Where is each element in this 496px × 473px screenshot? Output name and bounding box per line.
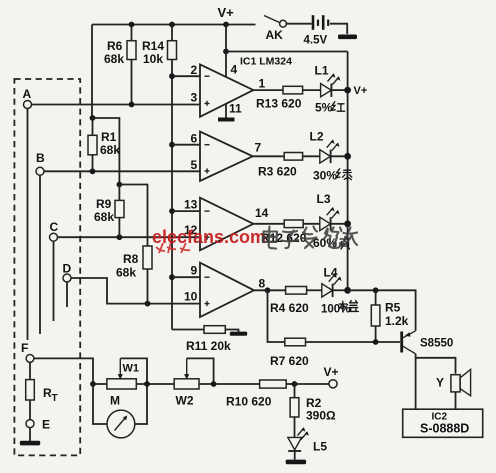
junction R5 top	[373, 287, 379, 293]
thermistor RT	[26, 362, 35, 420]
label 4.5V	[304, 35, 328, 47]
svg-text:R14: R14	[142, 39, 164, 53]
svg-text:C: C	[50, 220, 59, 234]
terminal V+ bottom	[324, 365, 339, 388]
wire pin13	[172, 210, 200, 212]
label pin 9	[191, 264, 198, 278]
svg-text:14: 14	[255, 206, 269, 220]
junction bus pin13	[169, 208, 175, 214]
resistor R5 1.2k	[371, 290, 380, 342]
svg-text:10k: 10k	[143, 52, 163, 66]
junction bus pin6	[169, 142, 175, 148]
junction R5 bottom base line	[373, 339, 379, 345]
svg-text:5%: 5%	[315, 101, 333, 115]
label R7 620	[270, 354, 309, 368]
svg-text:V+: V+	[354, 85, 368, 97]
label pin 7	[255, 141, 262, 155]
resistor R6	[127, 25, 136, 105]
wire R9 top to R8 top	[119, 185, 147, 247]
label 100% orange	[321, 301, 358, 316]
terminal C	[50, 220, 59, 241]
svg-text:5: 5	[191, 158, 198, 172]
watermark red strokes	[156, 242, 190, 253]
meter M	[93, 384, 147, 438]
junction V+ top	[223, 22, 229, 28]
wire L4 line to R5 and emitter	[348, 290, 416, 331]
svg-text:30%: 30%	[313, 169, 337, 183]
svg-text:T: T	[52, 393, 58, 404]
LED L4	[322, 274, 348, 298]
wire pin6	[172, 144, 200, 146]
svg-text:R4 620: R4 620	[270, 301, 309, 315]
label pin 3	[191, 91, 198, 105]
resistor R14	[168, 25, 177, 60]
label pin 2	[191, 63, 198, 77]
label R13 620	[256, 97, 302, 111]
wire battery to ground	[330, 24, 347, 34]
svg-text:R10 620: R10 620	[226, 395, 272, 409]
wire probe C	[53, 241, 55, 321]
svg-text:9: 9	[191, 264, 198, 278]
svg-text:1.2k: 1.2k	[385, 314, 409, 328]
resistor R1 68k	[88, 115, 97, 171]
svg-text:10: 10	[184, 290, 198, 304]
LED L1	[321, 73, 348, 97]
svg-text:4: 4	[231, 63, 238, 77]
label W1	[123, 363, 140, 375]
junction W1 left	[90, 381, 96, 387]
svg-text:R1: R1	[101, 130, 117, 144]
resistor R7 620	[285, 338, 400, 346]
wire probe A	[27, 108, 29, 340]
svg-text:11: 11	[229, 102, 242, 116]
LED L2	[320, 140, 348, 164]
label L2	[310, 130, 324, 144]
svg-text:elecfans.com: elecfans.com	[152, 227, 266, 247]
svg-text:E: E	[42, 418, 50, 432]
watermark CJK dianzifashaoyou gray	[263, 227, 357, 249]
svg-text:100%: 100%	[321, 304, 350, 316]
wire U1 output	[253, 89, 283, 91]
svg-text:R13 620: R13 620	[256, 97, 302, 111]
junction L1 bus V+	[344, 87, 351, 94]
junction L3 bus	[344, 220, 351, 227]
svg-text:68k: 68k	[100, 143, 120, 157]
label pin 6	[191, 132, 198, 146]
label S8550	[420, 338, 453, 350]
svg-text:4.5V: 4.5V	[304, 35, 328, 47]
ground battery	[338, 35, 357, 40]
ground E	[20, 427, 40, 445]
svg-text:B: B	[36, 151, 45, 165]
IC2 S-0888D box	[403, 409, 483, 437]
label R10 620	[226, 395, 272, 409]
wire F to W1 line	[34, 358, 93, 384]
wire pin4 stub into op-amp U1	[225, 52, 227, 78]
wire U1D output	[254, 289, 286, 291]
label pin 10	[184, 290, 198, 304]
svg-text:L5: L5	[313, 440, 327, 454]
svg-text:6: 6	[191, 132, 198, 146]
label RT	[43, 386, 58, 404]
switch AK	[264, 16, 312, 28]
wire collector to speaker branch	[416, 358, 456, 374]
LED L3	[320, 207, 348, 231]
label 5% red	[315, 101, 345, 115]
label pin 12	[184, 223, 198, 237]
node V+ at L1	[354, 85, 368, 97]
label R11 20k	[186, 339, 231, 353]
wire C to op-amp pin12	[57, 236, 200, 238]
potentiometer W1	[93, 358, 174, 389]
svg-text:68k: 68k	[94, 210, 114, 224]
wire LED supply bus	[347, 52, 349, 291]
svg-text:V+: V+	[218, 5, 235, 20]
wire pin9	[172, 276, 200, 278]
label R12 620	[261, 231, 307, 245]
wire top V+ rail	[92, 24, 256, 26]
potentiometer W2	[174, 358, 259, 389]
svg-text:AK: AK	[266, 28, 284, 42]
junction R8 bottom on D wire	[145, 301, 151, 307]
wire to V+ terminal	[295, 383, 329, 385]
terminal F	[21, 341, 34, 362]
svg-text:S-0888D: S-0888D	[420, 422, 469, 436]
svg-text:R11 20k: R11 20k	[186, 339, 231, 353]
svg-text:V+: V+	[324, 365, 339, 379]
LED L5	[288, 427, 309, 459]
junction L4 bus	[344, 287, 351, 294]
label pin 1	[259, 77, 266, 91]
junction W2 right	[211, 381, 217, 387]
label L5	[313, 440, 327, 454]
resistor R8 68k	[143, 246, 152, 304]
junction pin4 row	[223, 49, 229, 55]
speaker Y	[451, 369, 471, 409]
svg-text:L2: L2	[310, 130, 324, 144]
svg-text:IC1 LM324: IC1 LM324	[240, 56, 292, 68]
label R6 68k	[104, 39, 124, 66]
svg-text:R9: R9	[96, 197, 112, 211]
svg-text:Y: Y	[436, 376, 444, 390]
pin 11 ground stub U1	[218, 104, 235, 122]
water tank dashed enclosure	[14, 79, 80, 455]
ground L5	[286, 460, 306, 465]
junction R6 bottom on A wire	[129, 102, 135, 108]
svg-text:W1: W1	[123, 363, 140, 375]
label W2	[176, 394, 194, 408]
op-amp U1D	[200, 263, 254, 317]
label pin 13	[184, 198, 198, 212]
wire U1C output	[253, 223, 284, 225]
wire probe D	[66, 282, 68, 307]
svg-text:2: 2	[191, 63, 198, 77]
resistor R4 620	[286, 287, 322, 295]
wire R1 top to R9 top	[93, 118, 120, 185]
junction R14 top	[169, 22, 175, 28]
op-amp U1A (IC1 LM324)	[200, 64, 253, 116]
junction R2 top	[292, 381, 298, 387]
wire D to op-amp pin10	[71, 278, 200, 304]
junction L2 bus	[344, 153, 351, 160]
wire probe B	[39, 175, 41, 334]
op-amp U1B	[200, 132, 253, 181]
node V+ top label	[218, 5, 235, 20]
resistor R2 390	[290, 384, 299, 437]
resistor R9 68k	[115, 182, 124, 238]
terminal B	[36, 151, 45, 175]
label L1	[315, 64, 329, 78]
wire reference bus from R14 down to R11	[171, 60, 173, 330]
resistor R12 620	[284, 220, 320, 228]
label 60% yellow	[313, 236, 350, 250]
svg-text:W2: W2	[176, 394, 194, 408]
transistor Q1 S8550	[402, 331, 416, 409]
svg-text:F: F	[21, 341, 28, 355]
svg-text:R7 620: R7 620	[270, 354, 309, 368]
watermark elecfans.com red	[152, 227, 266, 247]
svg-text:R3 620: R3 620	[258, 165, 297, 179]
junction bus pin9	[169, 274, 175, 280]
svg-text:7: 7	[255, 141, 262, 155]
label AK	[266, 28, 284, 42]
label R5 1.2k	[385, 301, 409, 329]
svg-text:A: A	[23, 87, 32, 101]
svg-text:8: 8	[259, 277, 266, 291]
svg-text:3: 3	[191, 91, 198, 105]
junction bus pin2	[169, 73, 175, 79]
ground R11	[230, 332, 247, 336]
svg-text:S8550: S8550	[420, 338, 453, 350]
junction R1 bottom on B wire	[90, 168, 96, 174]
svg-text:68k: 68k	[116, 266, 136, 280]
svg-text:13: 13	[184, 198, 198, 212]
svg-text:1: 1	[259, 77, 266, 91]
label pin 11	[229, 102, 242, 116]
resistor R11 20k	[172, 326, 239, 334]
junction R6 top	[129, 22, 135, 28]
junction W1 right	[144, 381, 150, 387]
terminal E	[26, 418, 50, 432]
label 30% green	[313, 169, 352, 183]
junction output8 to R7	[265, 287, 271, 293]
resistor R13 620	[283, 86, 321, 94]
label R3 620	[258, 165, 297, 179]
junction R9 bottom on C wire	[117, 234, 123, 240]
terminal D	[63, 262, 72, 283]
wire A to op-amp pin3	[31, 104, 200, 106]
label IC1 LM324	[240, 56, 292, 68]
wire U1B output	[253, 155, 285, 157]
label R1 68k	[100, 130, 120, 157]
label pin 14	[255, 206, 269, 220]
svg-text:L3: L3	[317, 192, 331, 206]
resistor R10 620	[260, 380, 295, 388]
svg-text:L1: L1	[315, 64, 329, 78]
label R4 620	[270, 301, 309, 315]
svg-text:R5: R5	[385, 301, 401, 315]
svg-text:M: M	[110, 394, 120, 408]
terminal A	[23, 87, 32, 109]
svg-text:390Ω: 390Ω	[306, 409, 336, 423]
svg-text:68k: 68k	[104, 52, 124, 66]
label R2 390ohm	[306, 396, 336, 423]
label L3	[317, 192, 331, 206]
label pin 5	[191, 158, 198, 172]
label R8 68k	[116, 252, 139, 280]
wire B to op-amp pin5	[44, 170, 200, 172]
svg-text:R8: R8	[123, 252, 139, 266]
op-amp U1C	[200, 198, 253, 251]
resistor R3 620	[284, 153, 320, 161]
svg-text:L4: L4	[324, 266, 338, 280]
wire pin8 down to R7	[268, 290, 285, 342]
battery 4.5V	[313, 15, 328, 30]
wire V+ node down to pin4 row	[225, 25, 227, 52]
wire left V+ drop to R1 top	[91, 25, 93, 119]
label pin 8	[259, 277, 266, 291]
label L4	[324, 266, 338, 280]
wire pin4 row to LED bus	[226, 51, 348, 53]
label M	[110, 394, 120, 408]
svg-text:R6: R6	[107, 39, 123, 53]
label pin 4	[231, 63, 238, 77]
label Y	[436, 376, 444, 390]
label R9 68k	[94, 197, 114, 224]
label R14 10k	[142, 39, 164, 66]
wire pin2	[172, 75, 200, 77]
